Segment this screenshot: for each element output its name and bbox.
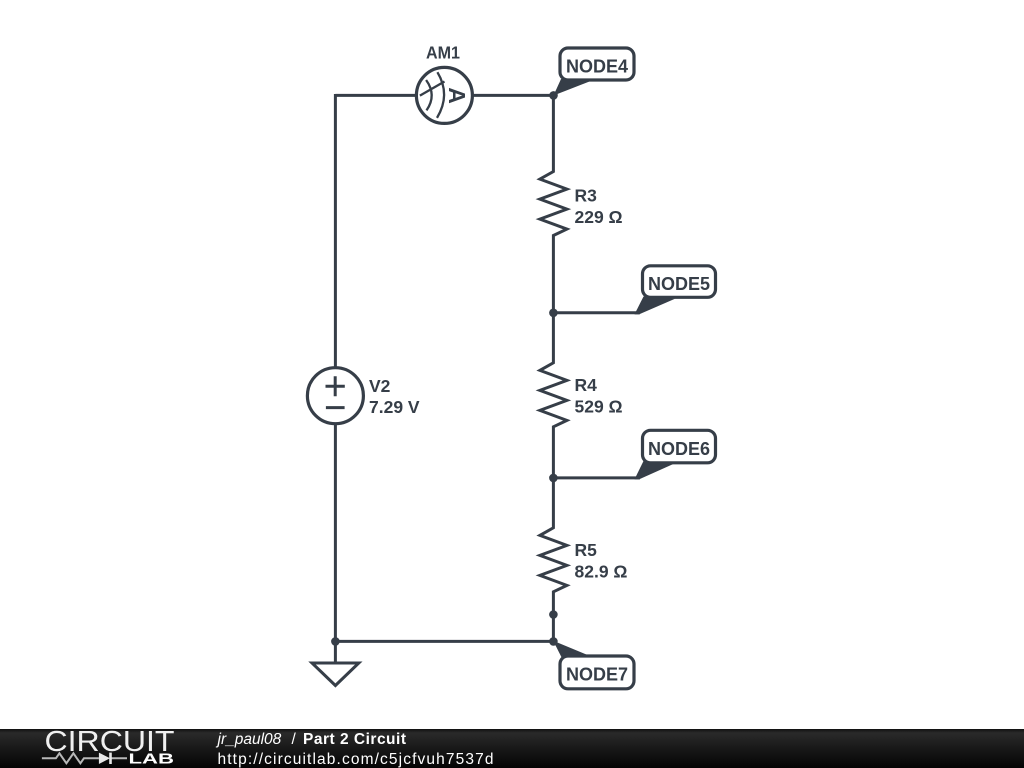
svg-text:82.9 Ω: 82.9 Ω: [575, 562, 628, 582]
svg-text:R5: R5: [575, 540, 598, 560]
svg-text:NODE7: NODE7: [566, 665, 628, 685]
svg-text:529 Ω: 529 Ω: [575, 397, 623, 417]
svg-text:V2: V2: [369, 376, 391, 396]
svg-text:7.29 V: 7.29 V: [369, 397, 420, 417]
svg-text:LAB: LAB: [129, 751, 175, 768]
svg-text:Part 2 Circuit: Part 2 Circuit: [303, 731, 406, 748]
svg-text:NODE4: NODE4: [566, 57, 628, 77]
svg-text:NODE5: NODE5: [648, 274, 710, 294]
svg-text:NODE6: NODE6: [648, 439, 710, 459]
svg-text:R3: R3: [575, 186, 598, 206]
svg-text:229 Ω: 229 Ω: [575, 207, 623, 227]
svg-text:AM1: AM1: [426, 43, 460, 63]
svg-text:R4: R4: [575, 375, 598, 395]
svg-text:A: A: [444, 87, 470, 104]
svg-text:http://circuitlab.com/c5jcfvuh: http://circuitlab.com/c5jcfvuh7537d: [218, 751, 494, 768]
svg-text:/: /: [292, 731, 297, 748]
svg-text:jr_paul08: jr_paul08: [216, 731, 282, 748]
